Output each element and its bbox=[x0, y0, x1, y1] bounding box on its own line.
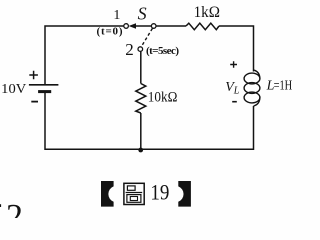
svg-text:2: 2 bbox=[6, 198, 23, 218]
svg-text:1kΩ: 1kΩ bbox=[194, 4, 220, 21]
caption glyph tu (figure) outer box bbox=[124, 183, 144, 204]
partial glyph sliver at left edge bbox=[0, 204, 1, 207]
node 2 contact circle bbox=[138, 47, 143, 52]
wire bottom from junction to bottom-left corner bbox=[45, 92, 141, 149]
wire R1 to top-right corner and down to inductor bbox=[219, 26, 254, 72]
svg-text:19: 19 bbox=[150, 180, 169, 205]
inductor L1 coil bbox=[244, 70, 260, 106]
resistor R1 1k zigzag bbox=[186, 23, 219, 30]
svg-text:=1H: =1H bbox=[274, 79, 293, 94]
switch S blade arrow bbox=[129, 23, 136, 28]
battery V1 negative plate bbox=[38, 90, 51, 93]
svg-text:S: S bbox=[138, 4, 147, 24]
svg-text:10kΩ: 10kΩ bbox=[148, 90, 178, 106]
wire pivot to resistor R1 bbox=[156, 25, 186, 27]
wire left+top from source positive to node 1 bbox=[45, 26, 124, 85]
svg-text:10V: 10V bbox=[1, 82, 26, 97]
switch S blade line bbox=[135, 25, 151, 27]
battery V1 positive plate bbox=[29, 84, 59, 86]
battery polarity minus bbox=[31, 101, 38, 103]
switch dashed blade to position 2 bbox=[141, 28, 152, 46]
wire R2 to bottom junction bbox=[140, 113, 142, 150]
svg-text:1: 1 bbox=[113, 8, 120, 23]
wire inductor to bottom-right corner bbox=[141, 106, 254, 149]
inductor polarity minus bbox=[232, 101, 237, 103]
svg-text:2: 2 bbox=[125, 40, 134, 59]
svg-text:VL: VL bbox=[225, 80, 240, 96]
caption glyph middle bar bbox=[126, 192, 143, 194]
caption glyph hui inner bbox=[130, 197, 137, 201]
junction dot bbox=[138, 148, 143, 153]
caption glyph inner mouth top bbox=[127, 186, 135, 190]
caption glyph hui outer bbox=[127, 195, 141, 203]
caption right bracket bbox=[178, 181, 191, 207]
svg-text:(t=0): (t=0) bbox=[97, 26, 123, 38]
svg-text:(t=5sec): (t=5sec) bbox=[146, 45, 179, 57]
node 1 contact circle bbox=[124, 24, 129, 29]
caption left bracket bbox=[101, 181, 114, 207]
inductor polarity plus bbox=[230, 61, 237, 68]
resistor R2 10k zigzag bbox=[136, 84, 146, 114]
battery polarity plus bbox=[29, 71, 38, 79]
wire node 2 down to resistor R2 bbox=[140, 51, 142, 83]
switch S pivot circle bbox=[151, 24, 156, 29]
